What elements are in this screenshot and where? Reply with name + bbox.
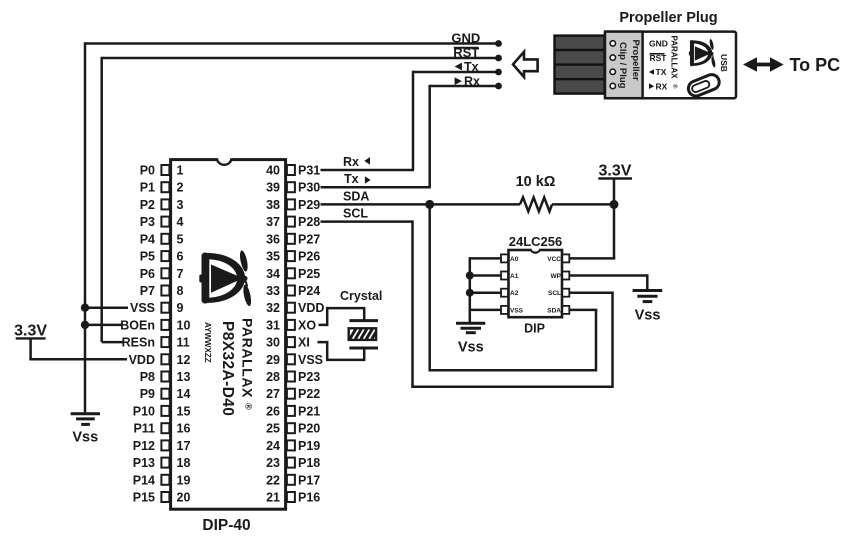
plug socket hole 1 — [610, 41, 615, 46]
svg-text:P18: P18 — [298, 456, 320, 470]
svg-text:Propeller Plug: Propeller Plug — [619, 10, 717, 26]
U1 pin 14 box — [161, 389, 169, 399]
wire Rx (plug, horizontal) — [430, 85, 499, 88]
svg-text:P8: P8 — [140, 370, 155, 384]
wire XI to crystal — [318, 342, 365, 360]
svg-text:VSS: VSS — [510, 307, 524, 314]
svg-text:20: 20 — [177, 491, 191, 505]
IC U2 24LC256 body — [509, 250, 563, 317]
svg-text:40: 40 — [266, 164, 280, 178]
svg-text:®: ® — [244, 403, 254, 410]
svg-text:®: ® — [671, 84, 678, 89]
wire SDA resistor to 3.3V node — [552, 203, 614, 206]
ground symbol (WP) — [633, 289, 663, 292]
svg-text:19: 19 — [177, 473, 191, 487]
logo Parallax (on plug) — [689, 39, 716, 68]
node RST overline — [454, 47, 479, 49]
wire Rx (vertical, to chip Tx) — [428, 85, 431, 187]
svg-text:10: 10 — [177, 318, 191, 332]
svg-text:34: 34 — [266, 267, 280, 281]
U2 pin 7 (WP) box — [562, 272, 569, 280]
wire Tx (plug, horizontal) — [413, 71, 499, 74]
wire VDD pin12 to 3.3V — [29, 358, 127, 361]
plug socket hole 2 — [610, 55, 615, 60]
U1 pin 10 box — [161, 320, 169, 330]
svg-text:SCL: SCL — [343, 207, 368, 221]
svg-text:P6: P6 — [140, 267, 155, 281]
svg-text:17: 17 — [177, 439, 191, 453]
svg-text:3: 3 — [177, 198, 184, 212]
svg-text:VSS: VSS — [298, 353, 323, 367]
U1 pin 37 box — [287, 217, 295, 227]
double arrow (USB link) — [743, 57, 784, 72]
svg-text:To PC: To PC — [790, 55, 841, 75]
U1 pin 2 box — [161, 182, 169, 192]
svg-text:GND: GND — [649, 39, 668, 49]
svg-text:P5: P5 — [140, 250, 155, 264]
svg-text:A1: A1 — [510, 273, 519, 280]
U1 pin 17 box — [161, 440, 169, 450]
svg-text:8: 8 — [177, 284, 184, 298]
svg-text:Propeller: Propeller — [630, 40, 641, 81]
U1 pin 26 box — [287, 406, 295, 416]
plug header section (grey) — [605, 32, 643, 99]
svg-text:3.3V: 3.3V — [599, 163, 632, 180]
svg-text:31: 31 — [266, 318, 280, 332]
U2 pin 4 (VSS) box — [501, 306, 508, 314]
U1 pin 40 box — [287, 165, 295, 175]
svg-text:30: 30 — [266, 336, 280, 350]
svg-text:P30: P30 — [298, 181, 320, 195]
plug RST overline — [650, 53, 665, 55]
svg-text:VSS: VSS — [130, 301, 155, 315]
resistor R1 10k — [520, 197, 552, 211]
svg-text:P15: P15 — [133, 491, 155, 505]
svg-text:26: 26 — [266, 404, 280, 418]
svg-text:Rx: Rx — [464, 74, 480, 88]
U1 pin 34 box — [287, 268, 295, 278]
U1 pin 15 box — [161, 406, 169, 416]
wire SDA return (bottom horizontal) — [428, 369, 596, 372]
svg-text:Tx: Tx — [344, 172, 359, 186]
wire SDA to EEPROM pin — [569, 309, 597, 312]
svg-text:P13: P13 — [133, 456, 155, 470]
ground symbol (left rail) — [71, 412, 100, 415]
wire EEPROM ground rail (vertical) — [469, 257, 472, 322]
svg-text:P29: P29 — [298, 198, 320, 212]
junction dot Rx at plug — [495, 83, 502, 90]
U1 pin 4 box — [161, 217, 169, 227]
svg-text:SDA: SDA — [343, 189, 369, 203]
U2 pin 6 (SCL) box — [562, 289, 569, 297]
wire 3.3V left (vertical) — [29, 338, 32, 359]
U1 pin 35 box — [287, 251, 295, 261]
U1 pin 6 box — [161, 251, 169, 261]
U2 pin 1 (A0) box — [501, 254, 508, 262]
plug board outline — [605, 32, 736, 99]
svg-text:9: 9 — [177, 301, 184, 315]
wire A1 to rail — [470, 274, 501, 277]
svg-text:14: 14 — [177, 387, 191, 401]
U1 pin 18 box — [161, 458, 169, 468]
svg-text:33: 33 — [266, 284, 280, 298]
svg-text:P20: P20 — [298, 422, 320, 436]
svg-text:PARALLAX: PARALLAX — [240, 318, 256, 398]
wire A0 to rail — [470, 257, 501, 260]
svg-text:XO: XO — [298, 318, 316, 332]
svg-text:12: 12 — [177, 353, 191, 367]
svg-text:RX: RX — [656, 81, 668, 91]
wire VCC to EEPROM pin — [569, 257, 615, 260]
svg-text:Rx: Rx — [343, 155, 359, 169]
wire 3.3V to VCC — [613, 179, 616, 259]
svg-text:15: 15 — [177, 404, 191, 418]
svg-text:Vss: Vss — [635, 307, 661, 323]
U1 pin 24 box — [287, 440, 295, 450]
svg-text:25: 25 — [266, 422, 280, 436]
svg-text:23: 23 — [266, 456, 280, 470]
svg-text:TX: TX — [656, 67, 667, 77]
svg-text:P26: P26 — [298, 250, 320, 264]
svg-text:10 kΩ: 10 kΩ — [516, 174, 556, 190]
junction dot BOEn — [81, 321, 89, 329]
U1 pin 23 box — [287, 458, 295, 468]
svg-text:VDD: VDD — [129, 353, 155, 367]
svg-text:6: 6 — [177, 250, 184, 264]
svg-text:21: 21 — [266, 491, 280, 505]
wire chip Tx from pin 39 — [321, 186, 431, 189]
U1 pin 33 box — [287, 286, 295, 296]
wire Tx (vertical, to chip Rx) — [412, 71, 415, 170]
svg-text:P4: P4 — [140, 232, 155, 246]
svg-text:Clip / Plug: Clip / Plug — [617, 42, 628, 89]
U2 pin 2 (A1) box — [501, 272, 508, 280]
U1 pin 25 box — [287, 423, 295, 433]
svg-text:P28: P28 — [298, 215, 320, 229]
junction dot 3.3V — [610, 200, 619, 209]
node 3.3V right underline — [598, 177, 632, 179]
svg-text:27: 27 — [266, 387, 280, 401]
svg-text:DIP: DIP — [524, 321, 545, 335]
svg-text:11: 11 — [177, 336, 190, 350]
U1 pin 5 box — [161, 234, 169, 244]
svg-text:PARALLAX: PARALLAX — [670, 36, 679, 80]
wire SDA return (up to EEPROM) — [595, 310, 598, 372]
svg-text:4: 4 — [177, 215, 184, 229]
svg-text:P14: P14 — [133, 473, 155, 487]
svg-text:GND: GND — [451, 31, 480, 46]
wire SDA from pin 38 — [321, 203, 521, 206]
U1 pin 8 box — [161, 286, 169, 296]
node Tx arrow at chip — [365, 176, 371, 184]
svg-text:P7: P7 — [140, 284, 155, 298]
svg-text:22: 22 — [266, 473, 280, 487]
svg-text:P27: P27 — [298, 232, 320, 246]
svg-text:Vss: Vss — [458, 340, 484, 356]
plug RX arrow — [649, 83, 654, 89]
node 3.3V left underline — [16, 337, 46, 339]
svg-text:18: 18 — [177, 456, 191, 470]
svg-text:38: 38 — [266, 198, 280, 212]
IC U1 notch cover — [217, 157, 232, 161]
U1 pin 11 box — [161, 337, 169, 347]
svg-text:7: 7 — [177, 267, 184, 281]
U1 pin 22 box — [287, 475, 295, 485]
wire VSS pin9 to GND rail — [85, 306, 128, 309]
svg-text:P3: P3 — [140, 215, 155, 229]
IC U2 notch — [531, 249, 540, 253]
svg-text:Crystal: Crystal — [340, 289, 382, 303]
U1 pin 38 box — [287, 199, 295, 209]
wire U2 VSS to rail — [470, 309, 501, 312]
U1 pin 20 box — [161, 492, 169, 502]
svg-text:P19: P19 — [298, 439, 320, 453]
U1 pin 21 box — [287, 492, 295, 502]
svg-text:Tx: Tx — [464, 60, 479, 74]
svg-text:P1: P1 — [140, 181, 155, 195]
svg-text:3.3V: 3.3V — [14, 323, 47, 340]
svg-text:P11: P11 — [133, 422, 155, 436]
svg-text:16: 16 — [177, 422, 191, 436]
svg-text:XI: XI — [298, 336, 310, 350]
svg-text:P2: P2 — [140, 198, 155, 212]
U1 pin 1 box — [161, 165, 169, 175]
crystal X1 bottom plate — [349, 347, 378, 350]
svg-text:24LC256: 24LC256 — [509, 234, 562, 249]
U1 pin 9 box — [161, 303, 169, 313]
U1 pin 30 box — [287, 337, 295, 347]
wire BOEn pin10 to GND rail — [85, 324, 122, 327]
U1 pin 36 box — [287, 234, 295, 244]
svg-text:Vss: Vss — [72, 429, 98, 445]
plug socket hole 3 — [610, 69, 615, 74]
svg-text:P12: P12 — [133, 439, 155, 453]
svg-text:P8X32A-D40: P8X32A-D40 — [219, 321, 236, 416]
crystal X1 body — [349, 328, 376, 340]
U1 pin 39 box — [287, 182, 295, 192]
svg-text:P17: P17 — [298, 473, 320, 487]
svg-text:32: 32 — [266, 301, 280, 315]
svg-text:36: 36 — [266, 232, 280, 246]
svg-text:35: 35 — [266, 250, 280, 264]
wire SCL (bottom horizontal) — [411, 386, 612, 389]
plug USB connector icon — [686, 72, 721, 98]
wire WP to ground — [569, 276, 647, 290]
svg-text:24: 24 — [266, 439, 280, 453]
IC U1 notch — [217, 158, 231, 165]
svg-text:P22: P22 — [298, 387, 320, 401]
svg-text:VDD: VDD — [298, 301, 324, 315]
svg-text:P31: P31 — [298, 164, 320, 178]
node Rx arrow at chip — [364, 157, 370, 165]
U1 pin 27 box — [287, 389, 295, 399]
svg-text:P21: P21 — [298, 404, 320, 418]
svg-text:5: 5 — [177, 232, 184, 246]
svg-text:39: 39 — [266, 181, 280, 195]
junction dot Tx at plug — [495, 69, 502, 76]
svg-text:A0: A0 — [510, 256, 519, 263]
wire RST (plug, horizontal) — [102, 57, 499, 60]
U1 pin 12 box — [161, 354, 169, 364]
U2 pin 8 (VCC) box — [562, 254, 569, 262]
svg-text:13: 13 — [177, 370, 191, 384]
U1 pin 29 box — [287, 354, 295, 364]
svg-text:BOEn: BOEn — [120, 318, 155, 332]
svg-text:2: 2 — [177, 181, 184, 195]
svg-text:P9: P9 — [140, 387, 155, 401]
U2 pin 5 (SDA) box — [562, 306, 569, 314]
junction dot A1 — [466, 272, 474, 280]
plug socket hole 4 — [610, 83, 615, 88]
svg-text:RESn: RESn — [122, 336, 155, 350]
plug cable connector body — [555, 36, 605, 94]
svg-text:P25: P25 — [298, 267, 320, 281]
U1 pin 7 box — [161, 268, 169, 278]
U1 pin 13 box — [161, 372, 169, 382]
junction dot GND at plug — [495, 40, 502, 47]
svg-text:P16: P16 — [298, 491, 320, 505]
svg-text:P0: P0 — [140, 164, 155, 178]
wire GND (plug to left rail, horizontal) — [85, 42, 499, 45]
plug TX arrow — [649, 69, 654, 75]
U1 pin 28 box — [287, 372, 295, 382]
wire SDA return (down) — [428, 204, 431, 370]
wire RST (vertical) — [100, 57, 103, 342]
svg-text:P10: P10 — [133, 404, 155, 418]
wire SCL from pin 37 — [321, 220, 413, 223]
U1 pin 3 box — [161, 199, 169, 209]
hollow arrow (to plug) — [513, 52, 538, 77]
svg-text:WP: WP — [551, 273, 562, 280]
crystal X1 top plate — [349, 319, 378, 322]
svg-text:DIP-40: DIP-40 — [202, 517, 250, 534]
junction dot A2 — [466, 289, 474, 297]
U1 pin 32 box — [287, 303, 295, 313]
svg-text:28: 28 — [266, 370, 280, 384]
U1 pin 31 box — [287, 320, 295, 330]
svg-text:P24: P24 — [298, 284, 320, 298]
IC U1 P8X32A-D40 body — [171, 160, 286, 510]
U1 pin 19 box — [161, 475, 169, 485]
wire RESn pin11 to RST — [102, 341, 124, 344]
svg-text:AYWWXZZ: AYWWXZZ — [203, 322, 212, 363]
wire A2 to rail — [470, 291, 501, 294]
wire SCL (down) — [411, 220, 414, 386]
junction dot VSS — [81, 304, 89, 312]
svg-text:37: 37 — [266, 215, 280, 229]
svg-text:P23: P23 — [298, 370, 320, 384]
svg-text:A2: A2 — [510, 290, 519, 297]
wire chip Rx from pin 40 — [321, 169, 415, 172]
svg-text:USB: USB — [719, 54, 729, 72]
U2 pin 3 (A2) box — [501, 289, 508, 297]
node Rx arrow — [455, 77, 462, 85]
wire GND left rail (vertical) — [84, 42, 87, 412]
ground symbol (EEPROM address pins) — [456, 322, 485, 325]
svg-text:SDA: SDA — [547, 307, 561, 314]
U1 pin 16 box — [161, 423, 169, 433]
svg-text:SCL: SCL — [548, 290, 561, 297]
svg-text:VCC: VCC — [547, 256, 561, 263]
wire SCL (up to EEPROM) — [611, 293, 614, 388]
wire SCL to EEPROM pin — [569, 291, 613, 294]
plug cable connector separators — [555, 50, 605, 79]
logo Parallax (on U1) — [199, 250, 252, 307]
svg-text:29: 29 — [266, 353, 280, 367]
crystal X1 hatch — [350, 329, 376, 339]
svg-text:1: 1 — [177, 164, 184, 178]
node Tx arrow — [455, 63, 462, 71]
junction dot SDA — [425, 200, 434, 209]
wire XO to crystal — [319, 308, 365, 325]
IC U2 notch cover — [530, 248, 541, 251]
junction dot RST at plug — [495, 55, 502, 62]
